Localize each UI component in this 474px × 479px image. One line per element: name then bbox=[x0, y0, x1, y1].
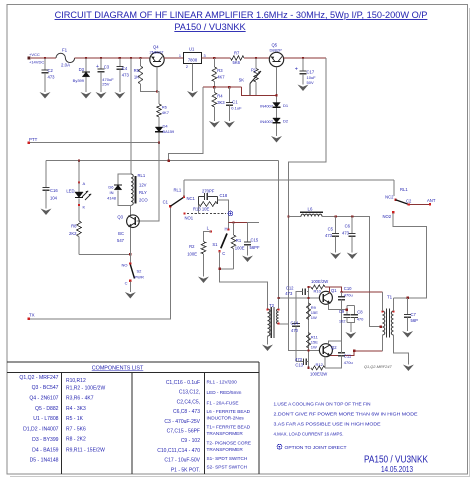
ground under C1 bbox=[224, 121, 235, 128]
wire S2 to ground bbox=[129, 282, 131, 293]
diode D4 BA159 bbox=[155, 127, 163, 132]
svg-text:1: 1 bbox=[179, 54, 181, 58]
junction bus-R12 bbox=[307, 367, 309, 369]
svg-text:+: + bbox=[295, 67, 298, 73]
svg-text:1W: 1W bbox=[311, 315, 317, 320]
wire H3 to T2 secondary top bbox=[278, 161, 280, 309]
fuse F1 2.0A bbox=[56, 53, 65, 58]
svg-text:7808: 7808 bbox=[188, 57, 198, 62]
svg-text:C1,C16 - 0.1uF: C1,C16 - 0.1uF bbox=[166, 380, 200, 386]
svg-text:R5: R5 bbox=[134, 68, 140, 73]
svg-text:D1: D1 bbox=[283, 103, 289, 108]
svg-text:2.DON'T GIVE RF POWER MORE THA: 2.DON'T GIVE RF POWER MORE THAN 6W IN HI… bbox=[274, 412, 419, 418]
capacitor C6 473 bbox=[351, 217, 353, 234]
svg-text:U1 - L7808: U1 - L7808 bbox=[33, 416, 58, 422]
relay RL1 contact blade 1 bbox=[170, 197, 184, 206]
junction feed-H3 bbox=[168, 160, 170, 162]
wire PTT to Q3 base riser bbox=[137, 143, 160, 221]
svg-text:C4: C4 bbox=[122, 66, 128, 71]
wire divider to P1 bottom bbox=[242, 87, 277, 95]
regulator U1 7808 bbox=[184, 53, 202, 64]
wire L6 to T1 center bbox=[322, 217, 381, 327]
svg-text:D4: D4 bbox=[163, 124, 169, 129]
diode D1 1N4007 bbox=[273, 103, 281, 108]
capacitor C5 473 bbox=[335, 217, 337, 234]
junction collector-C10 bbox=[340, 291, 342, 293]
wire NC1 to bypass line bbox=[183, 180, 185, 197]
resistor R11 15E 1W bbox=[307, 333, 311, 349]
junction bus-base1 bbox=[307, 297, 309, 299]
svg-text:C3: C3 bbox=[104, 65, 110, 70]
ground under C2 bbox=[40, 92, 51, 99]
svg-text:4148: 4148 bbox=[107, 196, 117, 201]
svg-text:K: K bbox=[83, 205, 86, 210]
node NC1 bbox=[183, 196, 185, 198]
node +VCC input terminal bbox=[28, 57, 31, 60]
svg-text:C8: C8 bbox=[357, 310, 363, 315]
wire divider node bbox=[203, 86, 242, 88]
svg-text:IN: IN bbox=[110, 190, 114, 195]
junction rail-C2 bbox=[44, 57, 46, 59]
svg-text:50V: 50V bbox=[307, 80, 314, 85]
ground under T1 secondary bbox=[403, 365, 414, 372]
node TX input terminal bbox=[27, 318, 30, 321]
svg-text:PA150 / VU3NKK: PA150 / VU3NKK bbox=[174, 22, 246, 32]
svg-text:+: + bbox=[96, 64, 99, 70]
svg-text:470u: 470u bbox=[344, 360, 353, 365]
svg-text:R7: R7 bbox=[234, 51, 240, 56]
svg-text:100E/2W: 100E/2W bbox=[310, 372, 327, 377]
svg-text:T2: T2 bbox=[269, 303, 275, 308]
svg-text:102: 102 bbox=[339, 318, 346, 323]
svg-text:COMPONENTS LIST: COMPONENTS LIST bbox=[92, 366, 144, 372]
capacitor C2 473 bbox=[44, 58, 46, 70]
wire Q1 collector riser bbox=[329, 287, 331, 293]
svg-text:D2: D2 bbox=[283, 119, 289, 124]
wire Q4 to U1 bbox=[164, 57, 183, 59]
svg-text:C14: C14 bbox=[291, 321, 299, 326]
wire Q3 emitter down bbox=[129, 228, 131, 264]
wire D2 to ground bbox=[276, 124, 278, 136]
wire Q4 base down bbox=[156, 67, 158, 92]
svg-text:C2: C2 bbox=[406, 199, 412, 204]
svg-text:R4 - 3K3: R4 - 3K3 bbox=[66, 406, 86, 412]
junction C-R1 link bbox=[218, 268, 220, 270]
wire T2 to Q1 base bbox=[279, 297, 320, 299]
ground under U1 bbox=[187, 91, 198, 98]
svg-text:LED: LED bbox=[66, 189, 74, 194]
junction collector2 bbox=[353, 350, 355, 352]
svg-text:D4 - BA159: D4 - BA159 bbox=[32, 447, 58, 453]
svg-text:C1: C1 bbox=[163, 200, 169, 205]
node ANT terminal bbox=[429, 203, 431, 205]
dashed option link bbox=[187, 213, 226, 215]
svg-text:BC: BC bbox=[118, 231, 124, 236]
wire gnd bar drop bbox=[350, 323, 352, 332]
svg-text:Q2: Q2 bbox=[331, 345, 337, 350]
node L of S1 bbox=[210, 231, 212, 233]
svg-text:Q3: Q3 bbox=[117, 215, 123, 220]
junction PTT-D4-Q3base bbox=[158, 142, 160, 144]
svg-text:U1: U1 bbox=[189, 47, 195, 52]
svg-text:56P: 56P bbox=[411, 318, 419, 323]
resistor R7 5K6 bbox=[231, 56, 245, 61]
svg-text:C11: C11 bbox=[344, 354, 352, 359]
svg-text:4K7: 4K7 bbox=[162, 110, 170, 115]
transistor Q2 MRF247 bbox=[319, 344, 332, 357]
svg-text:IN4007: IN4007 bbox=[260, 104, 274, 109]
svg-text:C: C bbox=[125, 281, 128, 286]
wire R8 to Q3 emitter node bbox=[79, 253, 130, 255]
wire D1 to D2 bbox=[276, 108, 278, 118]
svg-text:1K: 1K bbox=[134, 75, 139, 80]
wire divider feed to H3 bbox=[169, 87, 203, 161]
resistor R13 10E bbox=[199, 197, 218, 205]
resistor R12 100E/2W bbox=[311, 366, 325, 370]
ground under R4 bbox=[209, 121, 220, 128]
wire bias rail H3 bbox=[46, 160, 279, 162]
junction T1 center tap bbox=[380, 326, 382, 328]
ground under C15 bbox=[242, 256, 253, 263]
svg-text:C12: C12 bbox=[286, 286, 294, 291]
svg-text:R10,R12: R10,R12 bbox=[66, 378, 86, 384]
svg-text:LED - RED/5mm: LED - RED/5mm bbox=[207, 390, 242, 395]
svg-text:4K7: 4K7 bbox=[217, 75, 225, 80]
junction emitter node bbox=[129, 253, 131, 255]
wire S1 common to T2 bbox=[220, 251, 268, 309]
svg-text:PWR: PWR bbox=[135, 275, 144, 280]
ground under C3 bbox=[96, 92, 107, 99]
svg-text:Q5 - D882: Q5 - D882 bbox=[35, 406, 59, 412]
wire bias riser bbox=[280, 58, 326, 324]
svg-text:C10: C10 bbox=[344, 286, 352, 291]
svg-text:T1= FERRITE BEAD: T1= FERRITE BEAD bbox=[207, 425, 251, 430]
capacitor C1 0.1uF bbox=[228, 87, 230, 102]
junction T2 base feed bbox=[278, 297, 280, 299]
svg-text:TRANSFORMER: TRANSFORMER bbox=[207, 431, 244, 436]
svg-text:C6: C6 bbox=[345, 224, 351, 229]
ground under C5 bbox=[330, 253, 341, 260]
capacitor C10 470u bbox=[341, 292, 343, 297]
svg-text:TX: TX bbox=[29, 313, 35, 318]
node NO1 bbox=[183, 212, 185, 214]
svg-text:C2,C4,C5,: C2,C4,C5, bbox=[177, 399, 200, 405]
wire collector line to T1 bbox=[342, 291, 383, 293]
svg-text:C17: C17 bbox=[307, 70, 315, 75]
resistor R6 4K7 bbox=[157, 92, 159, 105]
capacitor C12 473 bbox=[307, 291, 309, 293]
preset P1 5K bbox=[255, 58, 257, 69]
resistor R5 1K bbox=[140, 58, 142, 66]
svg-text:Q4 - 2N6107: Q4 - 2N6107 bbox=[29, 396, 58, 402]
svg-text:+VCC: +VCC bbox=[29, 52, 40, 57]
wire H node to R1 C15 bbox=[229, 222, 259, 224]
svg-text:C9: C9 bbox=[339, 309, 345, 314]
svg-text:C17 - 10uF-50V: C17 - 10uF-50V bbox=[164, 458, 200, 464]
svg-text:ANT: ANT bbox=[427, 198, 436, 203]
table column transistors diodes bbox=[19, 375, 58, 464]
svg-text:473: 473 bbox=[285, 291, 293, 296]
svg-text:F1: F1 bbox=[62, 48, 68, 53]
wire TX to C1 common bbox=[30, 207, 170, 319]
svg-text:C2: C2 bbox=[48, 68, 54, 73]
svg-text:PTT: PTT bbox=[29, 137, 38, 142]
wire T1 primary bottom bbox=[381, 335, 383, 351]
junction rail-C17 bbox=[302, 57, 304, 59]
svg-text:Q3 - BC547: Q3 - BC547 bbox=[32, 385, 59, 391]
svg-text:C7,C15 - 56PF: C7,C15 - 56PF bbox=[167, 429, 200, 435]
table column capacitors bbox=[157, 380, 200, 473]
capacitor C17 10uF 50V electrolytic bbox=[302, 58, 304, 71]
capacitor C4 473 bbox=[119, 58, 121, 67]
switch S2 PWR bbox=[130, 265, 134, 279]
junction bus-R10 bbox=[307, 286, 309, 288]
wire base bus bbox=[308, 287, 310, 368]
capacitor C13 473 bbox=[296, 361, 303, 363]
svg-text:+14VDC: +14VDC bbox=[29, 59, 44, 64]
wire T2 sec bottom to Q2 base bbox=[289, 324, 320, 351]
resistor R8 2K2 bbox=[77, 221, 82, 237]
svg-text:R10: R10 bbox=[314, 288, 322, 293]
svg-text:RLY: RLY bbox=[139, 190, 147, 195]
wire T1 secondary top riser bbox=[393, 298, 395, 311]
junction divider-C1 bbox=[228, 86, 230, 88]
svg-text:R6: R6 bbox=[162, 105, 168, 110]
svg-text:OPTION TO JOINT DIRECT: OPTION TO JOINT DIRECT bbox=[285, 445, 347, 451]
node C1 relay common bbox=[169, 205, 171, 207]
svg-text:R12: R12 bbox=[316, 362, 324, 367]
svg-text:R8: R8 bbox=[71, 224, 77, 229]
svg-text:Q1,Q2 - MRF247: Q1,Q2 - MRF247 bbox=[19, 375, 58, 381]
wire PTT line bbox=[30, 142, 159, 144]
svg-text:5K: 5K bbox=[239, 78, 244, 83]
svg-text:5K6: 5K6 bbox=[233, 60, 241, 65]
junction H3-LED bbox=[78, 160, 80, 162]
svg-text:470: 470 bbox=[291, 328, 299, 333]
table column misc bbox=[207, 380, 252, 470]
node PTT input terminal bbox=[27, 141, 30, 144]
transistor Q4 2N6107 bbox=[150, 52, 164, 66]
capacitor C18 270PF bbox=[199, 196, 218, 198]
resistor R1 100E bbox=[233, 223, 235, 236]
wire Q5 base down bbox=[276, 67, 278, 103]
option joint symbol bbox=[228, 211, 233, 216]
wire +VCC rail left bbox=[31, 57, 56, 59]
capacitor C7 56P bbox=[407, 298, 409, 315]
svg-text:C: C bbox=[222, 251, 225, 256]
svg-text:2: 2 bbox=[186, 65, 188, 69]
svg-text:BA159: BA159 bbox=[163, 129, 175, 134]
svg-text:D1,D2 - IN4007: D1,D2 - IN4007 bbox=[23, 427, 59, 433]
svg-text:R8 - 2K2: R8 - 2K2 bbox=[66, 437, 86, 443]
wire Q2 emitter bbox=[329, 341, 342, 344]
ground under S2 bbox=[125, 292, 136, 299]
svg-text:S2: S2 bbox=[137, 269, 143, 274]
capacitor C16 104 bbox=[45, 161, 47, 188]
transistor Q3 BC547 bbox=[127, 215, 140, 228]
svg-text:100E: 100E bbox=[187, 252, 197, 257]
transistor Q1 MRF247 bbox=[319, 291, 332, 304]
svg-text:C5: C5 bbox=[328, 227, 334, 232]
wire R13 node to H node bbox=[217, 200, 228, 229]
svg-text:2CO: 2CO bbox=[139, 198, 148, 203]
svg-text:473: 473 bbox=[48, 75, 56, 80]
capacitor C14 470 bbox=[292, 323, 300, 325]
svg-text:RL1: RL1 bbox=[174, 188, 182, 193]
svg-text:P1: P1 bbox=[251, 68, 257, 73]
svg-text:473: 473 bbox=[342, 231, 350, 236]
svg-text:12V: 12V bbox=[139, 183, 147, 188]
wire T2 primary to ground bbox=[267, 336, 269, 345]
diode D2 1N4007 bbox=[273, 118, 281, 123]
switch S1 blade bbox=[221, 234, 227, 249]
wire relay coil to Q3 collector bbox=[129, 205, 131, 215]
svg-text:104: 104 bbox=[50, 196, 58, 201]
svg-text:473: 473 bbox=[325, 233, 333, 238]
svg-text:NO: NO bbox=[122, 263, 128, 268]
svg-text:2K2: 2K2 bbox=[69, 231, 77, 236]
wire NO1 to R13 node bbox=[198, 204, 200, 214]
junction rail-R5 bbox=[139, 57, 141, 59]
option note bbox=[277, 444, 282, 449]
svg-text:C13: C13 bbox=[295, 363, 303, 368]
junction rail-relay bbox=[130, 57, 132, 59]
svg-text:4.MAX. LOAD CURRENT 16 AMPS.: 4.MAX. LOAD CURRENT 16 AMPS. bbox=[274, 432, 344, 438]
svg-text:473: 473 bbox=[295, 357, 303, 362]
svg-text:14.05.2013: 14.05.2013 bbox=[381, 464, 413, 474]
wire R10 node to C10 bbox=[325, 287, 342, 292]
svg-text:D6: D6 bbox=[108, 185, 114, 190]
table column resistors bbox=[66, 378, 105, 454]
resistor R10 100E/2W bbox=[311, 285, 325, 289]
svg-text:C10,C11,C14 - 470: C10,C11,C14 - 470 bbox=[157, 448, 200, 454]
svg-text:R2: R2 bbox=[189, 244, 195, 249]
svg-text:D5 - 1N4148: D5 - 1N4148 bbox=[30, 458, 59, 464]
svg-text:C9 - 102: C9 - 102 bbox=[181, 438, 200, 444]
junction C7 bbox=[406, 297, 408, 299]
svg-text:2N6107: 2N6107 bbox=[150, 50, 165, 55]
svg-text:3.AS FAR AS POSSIBLE USE IN HI: 3.AS FAR AS POSSIBLE USE IN HIGH MODE bbox=[274, 422, 382, 428]
svg-text:INDUCTOR-2Nos: INDUCTOR-2Nos bbox=[207, 416, 245, 421]
ground under T2 bbox=[262, 345, 273, 352]
transistor Q5 D882P bbox=[269, 52, 283, 66]
wire R1 bottom link bbox=[220, 268, 234, 270]
svg-text:Q1: Q1 bbox=[331, 288, 337, 293]
svg-text:R3,R6 - 4K7: R3,R6 - 4K7 bbox=[66, 396, 94, 402]
wire bypass to NC2 bbox=[393, 180, 395, 196]
wire R7 to Q5 bbox=[244, 57, 269, 59]
ground under C16 bbox=[41, 209, 52, 216]
svg-text:T2- PIGNOSE CORE: T2- PIGNOSE CORE bbox=[207, 441, 252, 446]
svg-text:1W: 1W bbox=[311, 345, 317, 350]
svg-text:S1: S1 bbox=[212, 242, 218, 247]
junction H-R1 bbox=[232, 221, 234, 223]
svg-text:L6: L6 bbox=[308, 207, 313, 212]
svg-text:R3: R3 bbox=[217, 68, 223, 73]
svg-text:F1 - 20A-FUSE: F1 - 20A-FUSE bbox=[207, 401, 239, 406]
svg-text:NC2: NC2 bbox=[385, 195, 394, 200]
svg-text:C13,C12,: C13,C12, bbox=[179, 390, 200, 396]
wire RX bypass line bbox=[184, 179, 394, 181]
svg-text:C1: C1 bbox=[232, 100, 238, 105]
svg-text:R9,R11 - 15E/2W: R9,R11 - 15E/2W bbox=[66, 448, 105, 454]
svg-text:100E/2W: 100E/2W bbox=[311, 279, 328, 284]
resistor R3 4K7 bbox=[213, 58, 215, 67]
node H of S1 bbox=[227, 228, 229, 230]
svg-text:D882P: D882P bbox=[270, 47, 283, 52]
svg-text:3: 3 bbox=[204, 54, 206, 58]
diode D6 1N4148 flyback bbox=[118, 174, 131, 185]
svg-text:547: 547 bbox=[117, 238, 125, 243]
inductor L6 ferrite bead bbox=[289, 216, 302, 218]
junction rail-C4 bbox=[119, 57, 121, 59]
node C2 relay common bbox=[408, 203, 410, 205]
junction rail-P1 bbox=[255, 57, 257, 59]
svg-text:R7 - 5K6: R7 - 5K6 bbox=[66, 426, 86, 432]
svg-text:3K3: 3K3 bbox=[217, 100, 225, 105]
svg-text:2.0A: 2.0A bbox=[61, 63, 70, 68]
svg-text:470: 470 bbox=[357, 316, 364, 321]
svg-text:TRANSFORMER: TRANSFORMER bbox=[207, 447, 244, 452]
node C of S1 bbox=[219, 250, 221, 252]
svg-text:C6,C8 - 473: C6,C8 - 473 bbox=[173, 409, 200, 415]
ground under C4 bbox=[114, 92, 125, 99]
svg-text:RL1: RL1 bbox=[400, 187, 408, 192]
ground under D2 bbox=[271, 136, 282, 143]
capacitor C9 102 bbox=[347, 306, 355, 315]
relay RL1 coil 12V RLY 2CO bbox=[131, 174, 133, 205]
capacitor C3 470uF 25V electrolytic bbox=[100, 58, 102, 69]
svg-text:CIRCUIT DIAGRAM OF HF LINEAR A: CIRCUIT DIAGRAM OF HF LINEAR AMPLIFIER 1… bbox=[55, 10, 428, 20]
svg-text:P1 - 5K POT.: P1 - 5K POT. bbox=[171, 467, 200, 473]
svg-text:A: A bbox=[83, 181, 86, 186]
svg-text:C15: C15 bbox=[251, 238, 259, 243]
ground under D3 bbox=[81, 92, 92, 99]
junction divider-R3 bbox=[213, 86, 215, 88]
wire Q5 to bias line bbox=[284, 57, 326, 59]
svg-text:C7: C7 bbox=[411, 312, 417, 317]
wire T1 secondary bottom to ground bbox=[394, 335, 409, 365]
relay RL1 contact blade 2 bbox=[396, 200, 409, 204]
ground under C6 bbox=[347, 253, 358, 260]
components list table frame bbox=[7, 362, 259, 474]
ground PA bbox=[345, 332, 356, 339]
wire R12 to Q2 bbox=[324, 357, 326, 369]
svg-text:NC1: NC1 bbox=[187, 196, 196, 201]
svg-text:RL1: RL1 bbox=[138, 173, 146, 178]
svg-text:IN4007: IN4007 bbox=[260, 119, 274, 124]
ground under C17 bbox=[298, 85, 309, 92]
junction rail-D3 bbox=[85, 57, 87, 59]
wire bypass corner bbox=[393, 179, 395, 181]
svg-text:D3: D3 bbox=[79, 67, 85, 72]
svg-text:C16: C16 bbox=[50, 188, 58, 193]
wire Q2 collector bbox=[331, 351, 383, 356]
svg-text:Q1,Q2-MRF247: Q1,Q2-MRF247 bbox=[364, 364, 393, 369]
capacitor C8 470 bbox=[354, 306, 356, 315]
svg-text:H: H bbox=[224, 227, 227, 232]
svg-text:R1: R1 bbox=[236, 238, 242, 243]
ground under R2 bbox=[198, 277, 209, 284]
svg-text:R5 - 1K: R5 - 1K bbox=[66, 416, 84, 422]
node NC2 bbox=[394, 199, 396, 201]
junction L6-C5 bbox=[334, 215, 336, 217]
svg-text:25V: 25V bbox=[102, 82, 109, 87]
junction rail-C3 bbox=[100, 57, 102, 59]
wire T1 primary top bbox=[381, 292, 383, 311]
ground under C7 bbox=[402, 331, 413, 338]
svg-text:L6 - FERRITE BEAD: L6 - FERRITE BEAD bbox=[207, 409, 251, 414]
